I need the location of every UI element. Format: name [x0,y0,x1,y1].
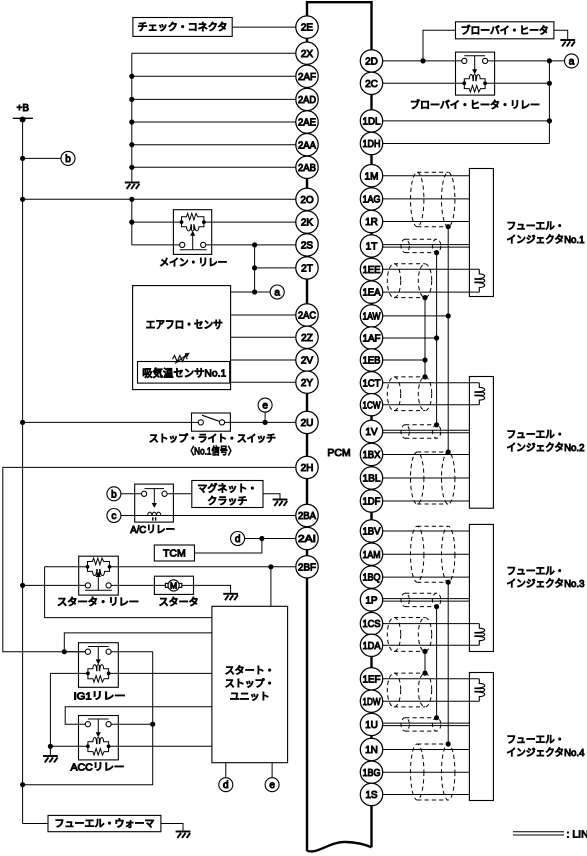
svg-text:2U: 2U [301,418,314,429]
svg-text:e: e [262,401,268,412]
svg-text:フューエル・: フューエル・ [507,567,565,578]
svg-text:1EB: 1EB [363,356,381,367]
svg-text:1CS: 1CS [363,619,381,630]
svg-text:インジェクタNo.3: インジェクタNo.3 [507,578,585,590]
svg-text:M: M [170,581,177,591]
svg-text:b: b [111,489,117,500]
svg-text:2T: 2T [301,264,313,275]
svg-text:ユニット: ユニット [230,692,270,703]
svg-text:フューエル・: フューエル・ [507,222,565,233]
svg-text:2BF: 2BF [298,562,316,573]
svg-text:IG1リレー: IG1リレー [74,691,126,702]
svg-text:2BA: 2BA [298,511,316,522]
svg-text:2X: 2X [301,49,314,60]
svg-text:2AC: 2AC [298,311,316,322]
svg-text:1BL: 1BL [363,474,381,485]
svg-text:クラッチ: クラッチ [207,495,247,507]
svg-text:d: d [235,534,241,545]
svg-text:インジェクタNo.2: インジェクタNo.2 [507,442,585,454]
svg-text:インジェクタNo.1: インジェクタNo.1 [507,234,585,246]
svg-text:吸気温センサNo.1: 吸気温センサNo.1 [142,367,226,380]
svg-text:1BG: 1BG [363,768,381,779]
svg-text:2AF: 2AF [298,72,316,83]
svg-text:1V: 1V [365,427,378,438]
svg-text:チェック・コネクタ: チェック・コネクタ [138,22,228,34]
svg-text:2AA: 2AA [298,140,316,151]
svg-text:フューエル・: フューエル・ [507,430,565,441]
svg-text:1R: 1R [365,217,378,228]
svg-text:1EA: 1EA [363,288,381,299]
svg-text:TCM: TCM [163,548,186,560]
svg-text:2E: 2E [301,23,314,34]
svg-text:2C: 2C [365,79,378,90]
svg-text:2AD: 2AD [298,95,316,106]
svg-text:1M: 1M [365,171,379,182]
svg-text:ストップ・: ストップ・ [225,678,275,690]
svg-text:A/Cリレー: A/Cリレー [130,525,175,536]
svg-text:1DL: 1DL [363,117,381,128]
svg-text:2S: 2S [301,241,314,252]
svg-text:ストップ・ライト・スイッチ: ストップ・ライト・スイッチ [149,433,276,445]
svg-text:1S: 1S [365,790,378,801]
svg-text:ACCリレー: ACCリレー [71,763,125,774]
svg-text:b: b [65,154,71,165]
svg-text:2K: 2K [301,218,314,229]
svg-text:1DF: 1DF [363,497,381,508]
svg-text:〈No.1信号〉: 〈No.1信号〉 [186,446,236,458]
svg-text:1DA: 1DA [363,641,381,652]
svg-text:フューエル・ウォーマ: フューエル・ウォーマ [55,818,155,830]
svg-text:1AF: 1AF [363,334,381,345]
svg-text:フューエル・: フューエル・ [507,735,565,746]
svg-text:a: a [274,288,280,299]
svg-text:2V: 2V [301,356,314,367]
svg-text:1CT: 1CT [363,378,381,389]
svg-text:e: e [269,780,275,791]
svg-text:1P: 1P [365,596,378,607]
svg-text:1AW: 1AW [363,312,381,323]
svg-text:1CW: 1CW [363,400,381,411]
svg-text:スタート・: スタート・ [225,665,275,677]
svg-text:+B: +B [17,103,30,114]
svg-text:2H: 2H [301,463,314,474]
svg-text:スタータ: スタータ [159,596,199,608]
svg-text:1T: 1T [366,242,378,253]
svg-text:1U: 1U [365,720,378,731]
svg-text:c: c [111,511,116,522]
svg-text:2D: 2D [365,57,378,68]
svg-text:ブローバイ・ヒータ: ブローバイ・ヒータ [461,24,549,37]
svg-text:a: a [569,56,575,67]
svg-text:インジェクタNo.4: インジェクタNo.4 [507,747,585,759]
svg-text:1DW: 1DW [363,697,381,708]
svg-text:2O: 2O [300,195,314,206]
svg-text:1AG: 1AG [363,195,381,206]
svg-text:: LIN: : LIN [567,829,587,841]
svg-text:2AI: 2AI [298,534,316,545]
svg-text:1DH: 1DH [363,139,381,150]
svg-text:ブローバイ・ヒータ・リレー: ブローバイ・ヒータ・リレー [410,98,540,111]
svg-text:1BQ: 1BQ [363,573,381,584]
svg-text:2AB: 2AB [298,163,316,174]
svg-text:スタータ・リレー: スタータ・リレー [57,596,139,608]
svg-text:1AM: 1AM [363,550,381,561]
svg-text:1BV: 1BV [363,527,381,538]
svg-text:2AE: 2AE [298,118,316,129]
svg-text:メイン・リレー: メイン・リレー [159,258,227,269]
svg-text:1EE: 1EE [363,265,381,276]
svg-text:マグネット・: マグネット・ [197,482,257,495]
svg-text:1BX: 1BX [363,450,381,461]
svg-text:2Y: 2Y [301,378,314,389]
svg-text:1N: 1N [365,745,378,756]
svg-text:エアフロ・センサ: エアフロ・センサ [146,319,223,331]
svg-text:PCM: PCM [327,447,350,459]
svg-text:d: d [223,780,229,791]
svg-text:1EF: 1EF [363,674,381,685]
svg-text:2Z: 2Z [301,333,313,344]
